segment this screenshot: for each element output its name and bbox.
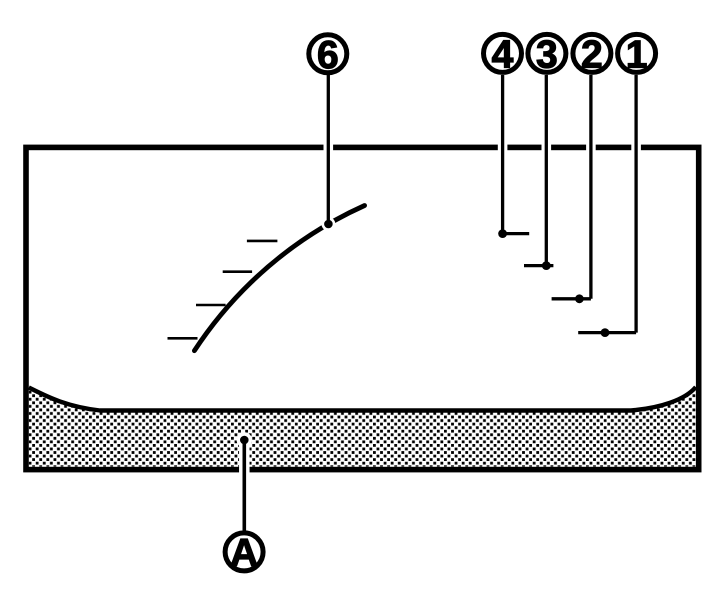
svg-text:A: A — [230, 532, 258, 575]
svg-text:1: 1 — [626, 34, 648, 77]
svg-text:4: 4 — [492, 34, 514, 77]
svg-text:3: 3 — [536, 34, 558, 77]
svg-text:2: 2 — [581, 34, 603, 77]
svg-text:6: 6 — [317, 34, 339, 77]
